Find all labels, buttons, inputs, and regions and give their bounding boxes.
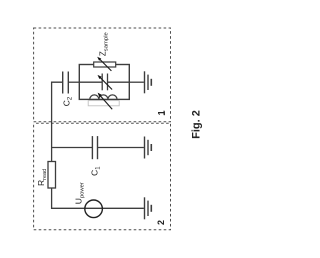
variable arrow through capacitor — [98, 75, 113, 90]
wire from C2 down to U_power branch — [52, 82, 144, 208]
resistor R_read — [48, 162, 56, 189]
wire loop left to variable capacitor — [79, 81, 102, 83]
svg-text:Fig. 2: Fig. 2 — [190, 110, 202, 139]
inductor slug core — [88, 101, 119, 106]
wire variable capacitor to loop right — [108, 81, 130, 83]
resonant loop rectangle — [79, 65, 129, 100]
wire junction to C1 — [52, 147, 93, 149]
dashed enclosure box 2 — [34, 123, 171, 229]
ground (C1 branch) — [145, 137, 152, 159]
svg-text:1: 1 — [157, 110, 167, 115]
svg-text:2: 2 — [156, 220, 166, 225]
variable arrow through inductor — [98, 93, 113, 110]
ground (U_power branch) — [145, 197, 152, 219]
variable inductor — [90, 95, 117, 100]
capacitor C1 — [92, 136, 97, 159]
resistor Z_sample — [94, 62, 116, 67]
source U_power circle — [85, 200, 103, 218]
ground (box 1) — [145, 71, 152, 93]
variable capacitor — [102, 74, 107, 91]
wire C1 to ground — [98, 147, 144, 149]
wire loop right to ground — [129, 81, 144, 83]
variable arrow through Z_sample — [97, 57, 111, 71]
dashed enclosure box 1 — [34, 28, 171, 122]
capacitor C2 — [63, 72, 69, 94]
wire C2 to resonant loop — [68, 81, 79, 83]
